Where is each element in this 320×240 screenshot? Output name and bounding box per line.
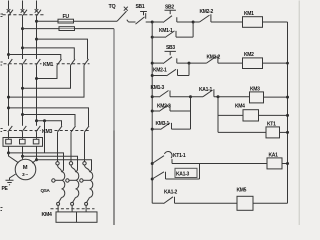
wire L1 tap to contact c1 feed [9, 55, 61, 60]
label SB2 [165, 5, 174, 11]
contactor KM1 contact c2 [71, 59, 76, 65]
QSA contact circle 1 [57, 202, 60, 205]
node row3c left [151, 128, 154, 131]
label QSA [41, 188, 51, 193]
wire motor tap1 to winding 1 [9, 153, 64, 172]
pushbutton SB3 start2 (NO) [163, 51, 189, 63]
contact KA1-2 [164, 197, 238, 204]
ground PE symbol [6, 180, 14, 184]
svg-text:SB2: SB2 [165, 5, 174, 11]
contactor KM3 contact a3 [36, 126, 41, 132]
contact KM2-2 (NC interlock) [193, 14, 242, 22]
wire KM3 coil to right rail [264, 96, 288, 98]
svg-text:KM2: KM2 [244, 52, 254, 58]
switch TQ [117, 7, 129, 22]
switch QSA blade 2 [72, 198, 75, 203]
autotransformer winding 2 [76, 172, 79, 198]
pushbutton SB2 start (NO) [163, 10, 193, 22]
wire KT1 coil to right rail [280, 131, 288, 133]
QSA contact circle 2 [71, 202, 74, 205]
winding3 lower tap [80, 179, 90, 182]
wire motor drop vertical [44, 121, 46, 153]
disconnect switch QS pole 3 [35, 9, 41, 16]
svg-text:FU: FU [63, 14, 70, 20]
wire motor tap2 to winding 2 [23, 156, 78, 171]
KM3 gang linkage dashed [4, 130, 90, 132]
coil KM4 [243, 110, 259, 121]
node after SB2 [192, 21, 195, 24]
node row3a left [151, 95, 154, 98]
wire FU2 to control neutral drop [75, 28, 115, 30]
wire FR out 1 [8, 146, 10, 153]
wire KM1 c2 bottom loop to L2 [23, 65, 71, 88]
contact KM3-1 [152, 123, 190, 130]
svg-text:KM4: KM4 [235, 104, 245, 110]
fuse FU1 [58, 19, 74, 23]
contact KT1-1 (time delay) [152, 151, 267, 163]
wire bottom rail [152, 202, 163, 204]
label KA1-3 box [175, 168, 197, 177]
node KT1 rail [286, 131, 289, 134]
svg-text:KM5: KM5 [237, 188, 247, 194]
wire FU1 to TQ [74, 20, 118, 22]
wire control neutral long vertical [113, 29, 115, 226]
wire KM3 c1 to transformer tap 1 [57, 132, 59, 162]
node tap L3 row1 feed [35, 38, 38, 41]
wire phase L1 to KM row1 [8, 16, 10, 59]
svg-text:KM3-1: KM3-1 [156, 121, 170, 127]
contactor KM3 contact a2 [22, 126, 27, 132]
wire motor tap3 to winding 3 [37, 160, 92, 172]
wire KA1 coil to right rail [282, 163, 288, 165]
label KM1-1 [159, 28, 173, 34]
label FU [63, 14, 70, 20]
disconnect switch QS pole 2 [21, 9, 27, 16]
wire rail1 to SB2 [152, 21, 163, 23]
node row2 left [151, 62, 154, 65]
node KM3 rail [286, 96, 289, 99]
QS cut-off label at left edge [1, 14, 4, 17]
wire FR out 3 [36, 146, 38, 159]
winding2 lower tap [66, 179, 76, 182]
wire into motor 3 [32, 160, 36, 163]
label KM5 coil [237, 188, 247, 194]
node rail top [151, 21, 154, 24]
node motor wire 1 [7, 151, 10, 154]
node tap L1 row2 feed [7, 106, 10, 109]
contactor KM1 main contact a3 [36, 59, 41, 65]
node branch KM1-1 top [151, 36, 154, 39]
wire QSA to KM4 box 1 [57, 205, 59, 212]
wire row3 merge vertical [190, 97, 192, 129]
wire to coil KT1 [218, 131, 266, 133]
coil KA1 [267, 158, 282, 169]
label SB3 [166, 45, 175, 51]
contact KM1-3 [152, 91, 190, 98]
svg-text:KM1: KM1 [43, 62, 53, 68]
svg-text:KM4: KM4 [42, 212, 52, 218]
svg-text:KM1-3: KM1-3 [151, 85, 165, 91]
contactor KM3 contact c3 [85, 126, 90, 132]
label SB1 [136, 4, 145, 10]
contact KA1-3 [152, 164, 199, 180]
wire KM1 coil to right rail [263, 21, 288, 23]
node coil cluster top [217, 95, 220, 98]
wire row2 to SB3 [152, 62, 163, 64]
node motor wire 3 [35, 158, 38, 161]
wire KM5 coil to right rail [253, 202, 288, 204]
switch QSA blade 3 [86, 198, 89, 203]
label KA1 coil [269, 152, 279, 158]
svg-text:QSA: QSA [41, 188, 51, 193]
contactor KM1 main contact a1 [8, 59, 13, 65]
tap plug circle 1 [56, 162, 62, 172]
node tap L2 to FU2 [21, 27, 24, 30]
node tap L2 row2 feed [21, 113, 24, 116]
node KM4 rail [286, 114, 289, 117]
winding1 lower tap [52, 179, 62, 182]
node tap L1 row1 feed [7, 53, 10, 56]
contactor KM1 main contact a2 [22, 59, 27, 65]
FR heater element 3 [33, 139, 39, 144]
svg-text:KM2-2: KM2-2 [200, 9, 214, 15]
wire FR out 2 [22, 146, 24, 156]
svg-text:KM3: KM3 [250, 87, 260, 93]
wire KM1 c3 bottom loop to L1 [9, 65, 85, 97]
contact KA1-1 (NC) [191, 89, 219, 96]
label M 3~ [22, 165, 28, 178]
node loop1 on L3 [35, 77, 38, 80]
wire KM2 coil to right rail [263, 62, 289, 65]
QS gang linkage dashed [3, 14, 45, 16]
svg-text:3 ~: 3 ~ [22, 172, 28, 178]
label cut bottom left edge [1, 208, 3, 211]
contactor KM1 contact c1 [57, 59, 62, 65]
svg-text:SB3: SB3 [166, 45, 175, 51]
page right edge shading [298, 1, 300, 226]
svg-text:KM1: KM1 [244, 11, 254, 17]
wire to fuse FU1 [37, 20, 58, 22]
label cut at left edge row1 [1, 62, 3, 65]
wire phase L3 incoming [36, 1, 38, 10]
wire KM4 coil to right rail [259, 114, 288, 116]
wire L3 row2 to FR box [36, 132, 38, 139]
node row3b left [151, 110, 154, 113]
svg-text:TQ: TQ [109, 4, 116, 10]
wire into motor 2 [22, 156, 24, 159]
wire L3 tap to contact c3 feed [37, 39, 88, 59]
contact KM1-1 (holding) [152, 22, 193, 38]
wire L2 tap to contact c2 feed [23, 48, 75, 59]
contactor KM4 box [56, 212, 97, 222]
label KM1 row [43, 62, 53, 68]
FR heater element 1 [6, 139, 12, 144]
wire to coil KM3 [218, 96, 250, 98]
wire phase L3 row1 to row2 [36, 65, 38, 125]
label KA1-3 [176, 172, 189, 178]
motor M [15, 159, 36, 180]
coil KM2 [243, 58, 263, 69]
contactor KM1 contact c3 [84, 59, 89, 65]
coil KM1 [243, 17, 263, 28]
contactor KM3 contact c2 [71, 126, 76, 132]
wire into motor 1 [9, 153, 19, 163]
svg-text:KA1-1: KA1-1 [199, 87, 212, 93]
wire coil cluster vertical [217, 97, 219, 133]
KM4 gang linkage dashed [51, 208, 95, 210]
label KT1 coil [267, 122, 276, 128]
svg-text:KA1-3: KA1-3 [176, 172, 189, 178]
wire L2 tap to KM3 c2 feed [23, 115, 76, 126]
autotransformer winding 3 [90, 172, 93, 198]
node KA1 rail [286, 162, 289, 165]
contact KM2-3 [152, 105, 190, 112]
svg-text:KM2-3: KM2-3 [157, 104, 171, 110]
right rail vertical [287, 22, 289, 203]
label KA1-1 [199, 87, 212, 93]
label PE [2, 186, 9, 192]
node row4 left [151, 162, 154, 165]
label KM2 coil [244, 52, 254, 58]
label KA1-2 [164, 189, 177, 195]
pushbutton SB1 stop (NC) [129, 12, 153, 25]
svg-text:KM2-1: KM2-1 [153, 68, 167, 74]
label KM1 coil [244, 11, 254, 17]
node tap L3 to FU1 [35, 20, 38, 23]
label KM3 coil [250, 87, 260, 93]
FR heater element 2 [20, 139, 26, 144]
wire phase L3 to KM row1 [36, 16, 38, 59]
node loop2 on L2 [21, 87, 24, 90]
node after SB3 [188, 62, 191, 65]
coil KT1 [266, 127, 280, 138]
svg-text:KT1: KT1 [267, 122, 276, 128]
contact KM1-2 (NC interlock) [189, 55, 243, 63]
svg-text:KT1-1: KT1-1 [173, 153, 186, 159]
label KM3 row [42, 129, 52, 135]
thermal overload relay FR box [3, 138, 43, 147]
node motor wire 2 [21, 155, 24, 158]
svg-text:KM1-1: KM1-1 [159, 28, 173, 34]
label KM1-3 [151, 85, 165, 91]
node branch KA1-3 left [151, 178, 154, 181]
coil KM3 [250, 92, 264, 103]
label KM2-1 [153, 68, 167, 74]
switch QSA blade 1 [58, 198, 61, 203]
wire phase L1 incoming [8, 1, 10, 10]
KM1 gang linkage dashed [4, 63, 90, 65]
wire KM3 c2 to transformer tap 2 [70, 132, 72, 162]
svg-text:KM3: KM3 [42, 129, 52, 135]
label KM3-1 [156, 121, 170, 127]
wire L1 row2 to FR box [8, 132, 10, 139]
wire to coil KM4 [218, 114, 243, 116]
contact KM2-1 (holding) [152, 63, 189, 76]
wire QSA to KM4 box 2 [71, 205, 73, 212]
wire L3 tap to KM3 c1 feed and motor drop [37, 121, 62, 126]
svg-text:KM1-2: KM1-2 [207, 55, 221, 61]
node tap L3 row2 feed [35, 119, 38, 122]
svg-text:KA1: KA1 [269, 152, 279, 158]
label KM2-3 [157, 104, 171, 110]
autotransformer winding 1 [62, 172, 65, 198]
label TQ [109, 4, 116, 10]
wire to fuse FU2 [23, 28, 60, 30]
label KT1-1 [173, 153, 186, 159]
label KM2-2 [200, 9, 214, 15]
contactor KM3 contact c1 [58, 126, 63, 132]
wire phase L2 to KM row1 [22, 16, 24, 59]
disconnect switch QS pole 1 [7, 9, 13, 16]
tap plug circle 3 [83, 162, 90, 172]
svg-text:KA1-2: KA1-2 [164, 189, 177, 195]
wire phase L2 incoming [22, 1, 24, 10]
contactor KM3 contact a1 [8, 126, 13, 132]
label KM4 [42, 212, 52, 218]
label KM1-2 [207, 55, 221, 61]
node motor drop tap [43, 119, 46, 122]
wire L1 tap to KM3 c3 feed [9, 108, 89, 126]
fuse FU2 [59, 27, 75, 31]
svg-text:PE: PE [2, 186, 9, 192]
label cut at left edge row2 [1, 129, 3, 132]
left rail vertical [151, 22, 153, 203]
wire KM3 c3 to transformer tap 3 [84, 132, 86, 162]
wire QSA to KM4 box 3 [85, 205, 87, 212]
node tap L2 row1 feed [21, 46, 24, 49]
node branch KM2-1 top [151, 74, 154, 77]
node row3 merge top [189, 95, 192, 98]
label KM4 coil [235, 104, 245, 110]
wire KM1 c1 bottom loop to L3 [37, 65, 58, 78]
svg-text:SB1: SB1 [136, 4, 145, 10]
wire L2 row2 to FR box [22, 132, 24, 139]
coil KM5 [237, 196, 253, 210]
tap plug circle 2 [69, 162, 75, 172]
wire motor to PE [10, 174, 16, 180]
svg-text:M: M [23, 165, 28, 171]
node loop3 on L1 [7, 96, 10, 99]
wire phase L2 row1 to row2 [22, 65, 24, 125]
QSA contact circle 3 [85, 202, 88, 205]
wire phase L1 row1 to row2 [8, 65, 10, 125]
